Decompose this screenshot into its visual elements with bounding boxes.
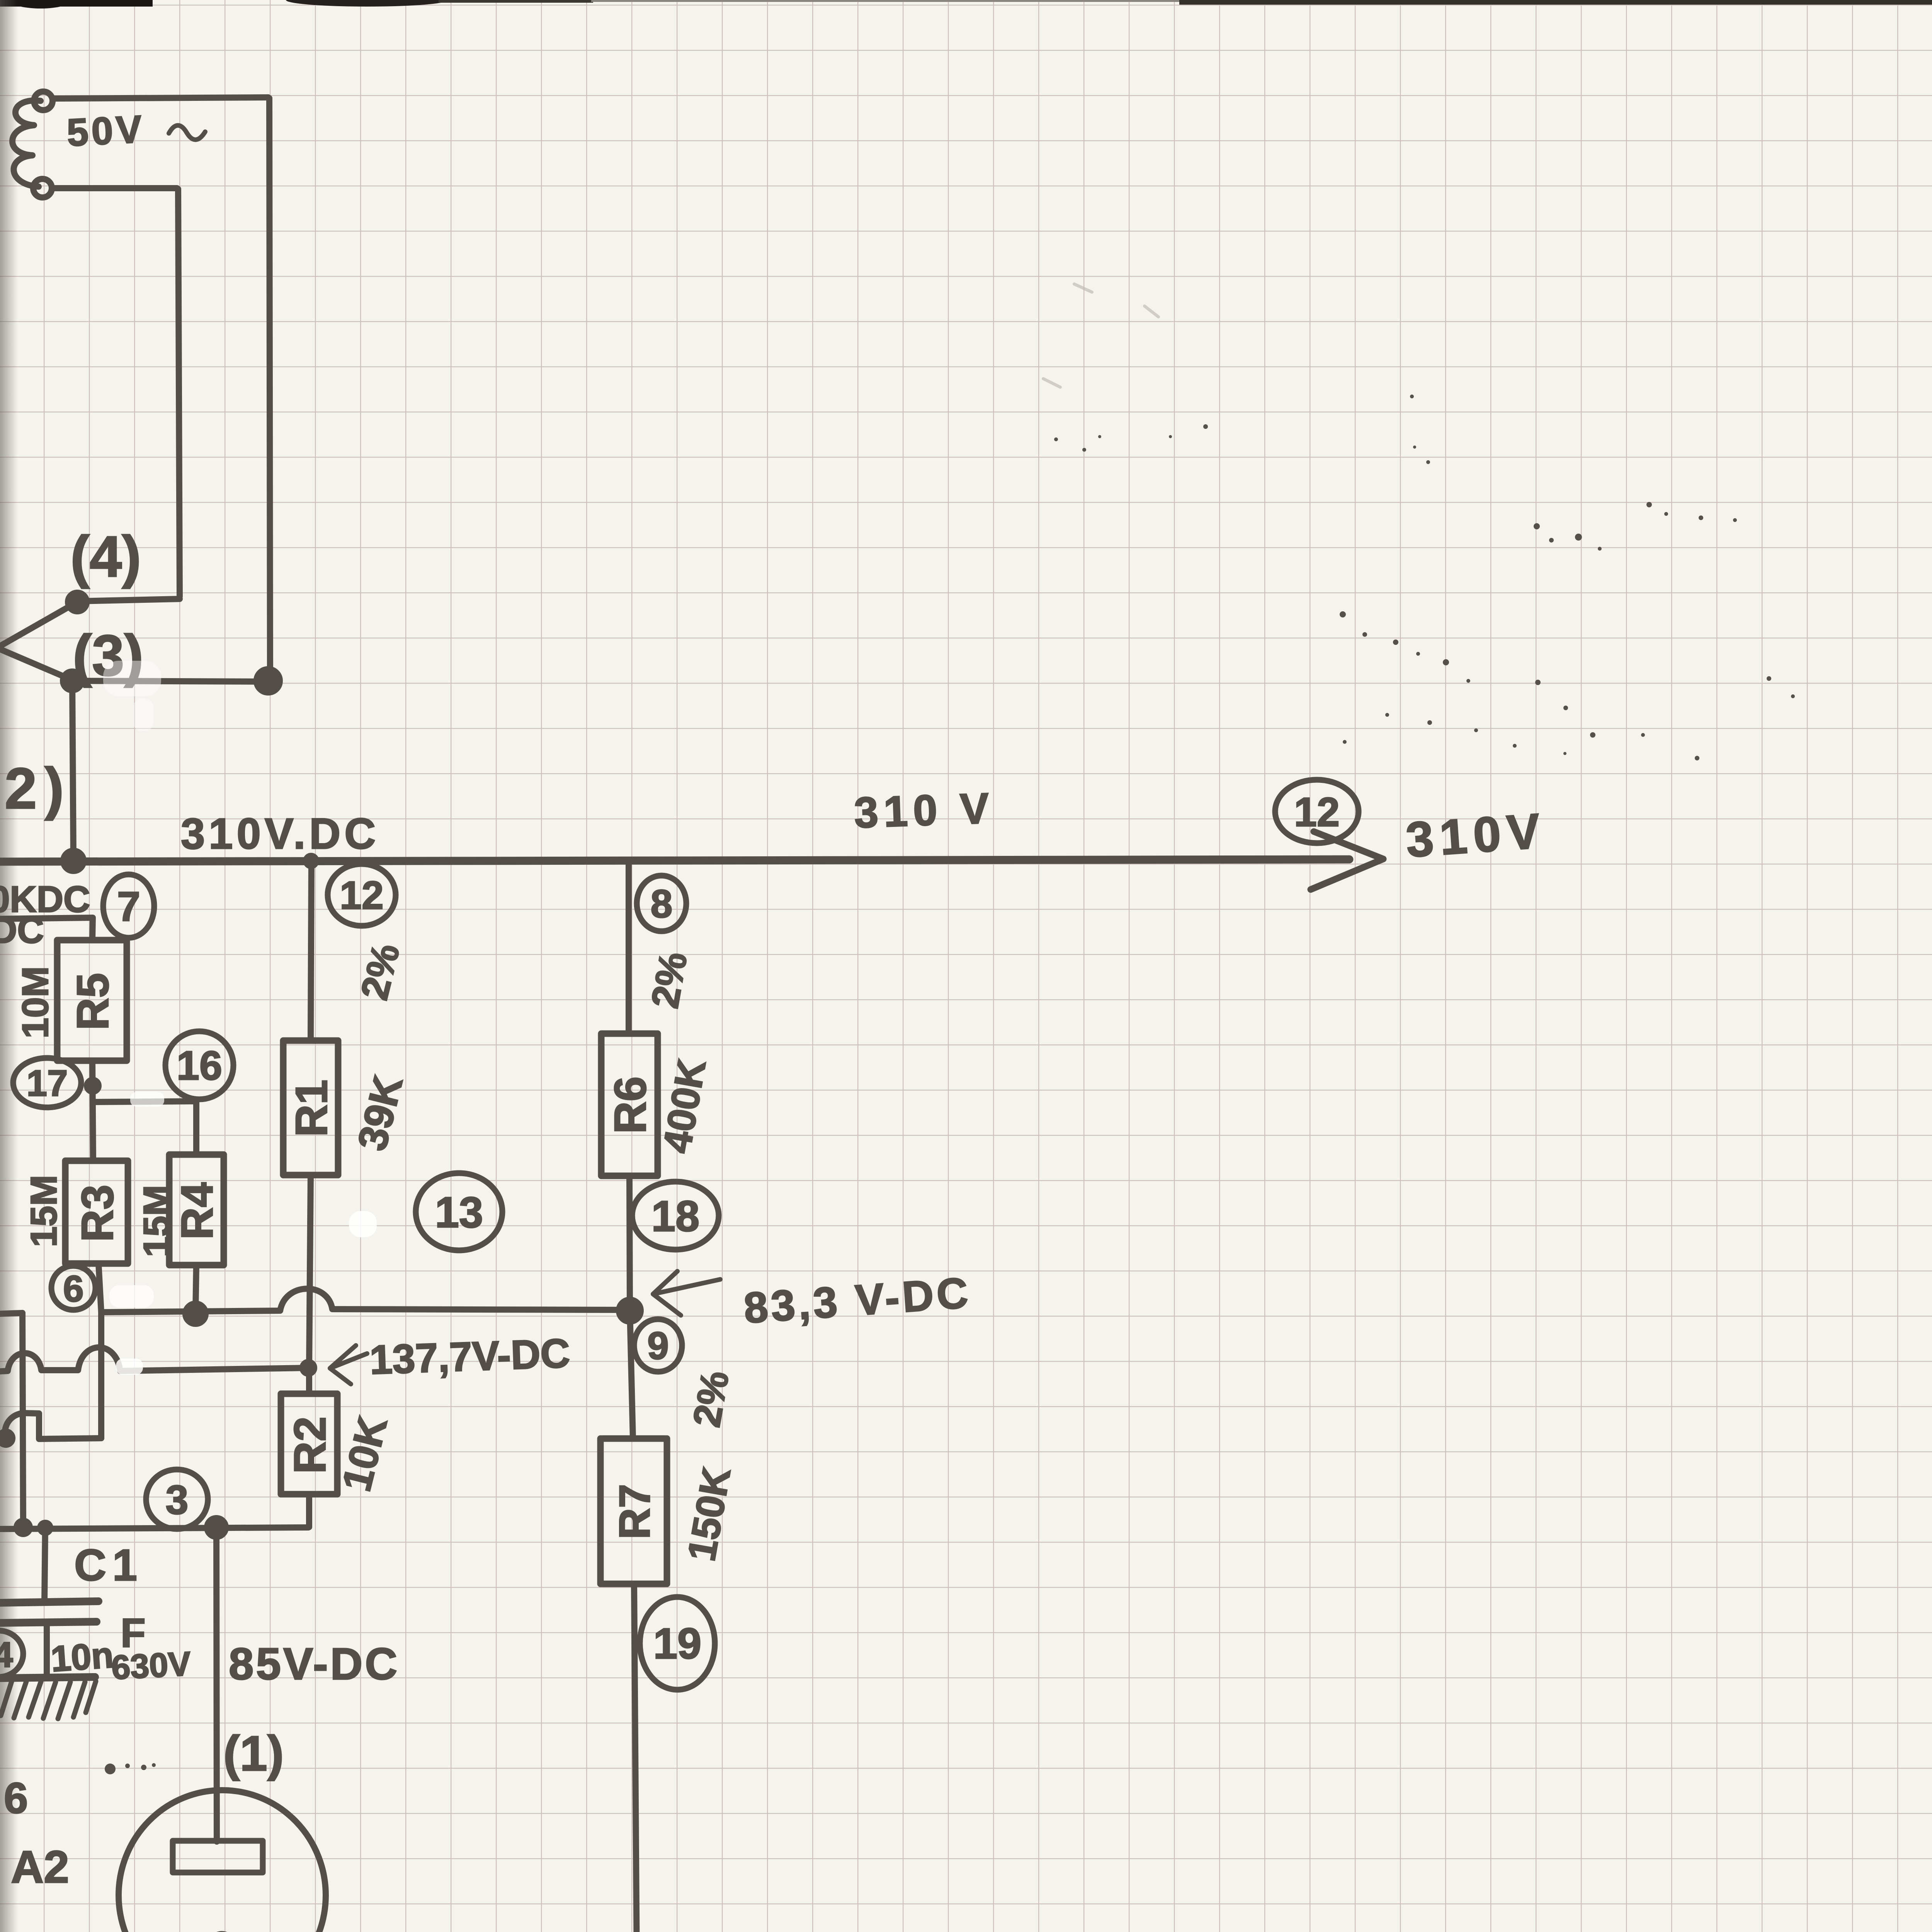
junction dot below R5	[87, 1080, 99, 1092]
svg-text:R2: R2	[285, 1417, 335, 1474]
white-out patch on second row	[116, 1359, 143, 1375]
wire tube anode lead	[216, 1527, 217, 1842]
AC squiggle after 50V	[169, 125, 205, 139]
svg-text:15M: 15M	[23, 1175, 65, 1247]
junction dot R4 / mid row	[185, 1304, 206, 1324]
white-out patch in circle 13	[349, 1211, 377, 1237]
transformer winding L1 (50V)	[12, 100, 41, 187]
ground bar under C1	[0, 1677, 95, 1678]
svg-text:15M: 15M	[136, 1185, 177, 1257]
svg-text:R6: R6	[605, 1077, 655, 1134]
wire R2 bottom lead	[306, 1494, 312, 1527]
svg-text:(2): (2)	[0, 756, 71, 821]
svg-text:DC: DC	[0, 910, 44, 951]
resistor R6 body	[601, 1034, 658, 1176]
wire bus stub top-left of mid row	[0, 1313, 22, 1314]
svg-text:310V.DC: 310V.DC	[181, 810, 379, 858]
wire from bottom terminal right	[53, 185, 177, 191]
svg-text:(4): (4)	[70, 524, 141, 589]
resistor R5 body	[57, 940, 127, 1061]
resistor R7 body	[600, 1439, 667, 1584]
scan band faint middle	[591, 0, 1180, 2]
node circle 9	[634, 1319, 682, 1372]
wire C1 top lead	[44, 1528, 45, 1602]
node circle 3	[146, 1469, 208, 1529]
white-out patch on R5-R4 wire	[130, 1092, 164, 1107]
junction dot left column / third row	[17, 1521, 30, 1534]
arrow pointing to 137,7V node	[330, 1345, 367, 1384]
junction dot right end of node3 wire	[257, 669, 280, 692]
third row wire (node 3 line)	[0, 1527, 308, 1529]
svg-text:6: 6	[4, 1774, 28, 1822]
svg-text:19: 19	[653, 1619, 702, 1668]
scan band top-middle lens	[286, 0, 448, 7]
node circle 8	[637, 876, 686, 931]
scan shadow left edge	[0, 0, 18, 1932]
node (4) wire	[77, 599, 180, 601]
svg-text:10M: 10M	[15, 966, 56, 1039]
wire R6 bottom lead	[629, 1176, 630, 1310]
junction dot C1 / third row	[40, 1523, 50, 1533]
wire junction to R4 top	[93, 1101, 196, 1155]
scan band top-right	[1179, 0, 1932, 5]
node circle 7	[103, 874, 154, 938]
wire R1 top lead to bus	[311, 860, 311, 1041]
wire R7 bottom lead to ground	[634, 1584, 638, 1932]
svg-text:R5: R5	[68, 973, 118, 1030]
junction dot tube lead / third row	[207, 1518, 226, 1537]
faint smudge strokes	[1074, 284, 1092, 292]
resistor R2 body	[281, 1394, 337, 1494]
node circle 13	[416, 1173, 502, 1250]
svg-text:9: 9	[647, 1324, 669, 1367]
svg-text:630V: 630V	[111, 1644, 192, 1687]
junction dot 83V node	[619, 1300, 641, 1321]
wire R5 feed from left edge	[0, 918, 93, 940]
wire R3 bottom lead	[99, 1264, 101, 1438]
tube anode plate	[173, 1841, 263, 1872]
svg-text:310 V: 310 V	[853, 784, 995, 837]
svg-text:310V: 310V	[1404, 803, 1548, 868]
bus arrowhead	[1311, 832, 1383, 889]
svg-text:10n: 10n	[49, 1634, 115, 1679]
junction dot at R2 top node	[303, 1362, 314, 1374]
svg-text:3: 3	[166, 1477, 189, 1523]
svg-text:16: 16	[177, 1043, 222, 1088]
junction dot bus / node3 wire	[63, 851, 83, 871]
node circle 12 left	[328, 864, 396, 926]
svg-text:A2: A2	[11, 1842, 69, 1893]
ground hatching under C1	[1, 1681, 96, 1719]
node (3) junction dot	[63, 672, 82, 690]
svg-text:8: 8	[651, 882, 673, 926]
resistor R3 body	[65, 1161, 128, 1264]
svg-text:R1: R1	[286, 1080, 337, 1137]
scan band top-left blob	[14, 0, 68, 9]
node circle 16	[165, 1031, 233, 1099]
capacitor C1 top plate	[0, 1601, 99, 1603]
svg-text:17: 17	[27, 1063, 68, 1104]
node (3) wire	[72, 681, 268, 682]
wire U-path from R3 lead to left	[5, 1413, 101, 1439]
scan band top-left	[0, 0, 153, 7]
wire R4 bottom lead	[196, 1265, 196, 1313]
arrow pointing to 83,3V node	[653, 1271, 720, 1315]
svg-text:6: 6	[63, 1268, 83, 1310]
wire end dot at left edge	[0, 1432, 12, 1445]
node circle 12 at bus arrow	[1275, 780, 1359, 843]
node circle 17	[13, 1058, 81, 1107]
svg-text:R3: R3	[72, 1185, 122, 1242]
wire down right column to node (3) row	[269, 98, 270, 680]
svg-text:(1): (1)	[223, 1726, 284, 1781]
node circle 18	[632, 1182, 719, 1250]
second row wire to R2 top with two hops	[0, 1347, 308, 1371]
node circle 4 at capacitor (partial)	[0, 1631, 23, 1677]
svg-text:7: 7	[117, 883, 140, 930]
svg-text:13: 13	[435, 1188, 483, 1236]
white-out streak below	[133, 699, 153, 731]
wire R1 bottom lead to R2 node	[309, 1175, 311, 1368]
svg-text:12: 12	[340, 873, 383, 917]
wire R2 top lead	[306, 1368, 312, 1394]
svg-text:C1: C1	[74, 1541, 143, 1590]
ink specks top right area	[1203, 424, 1208, 429]
svg-text:50V: 50V	[66, 107, 146, 155]
svg-text:85V-DC: 85V-DC	[229, 1639, 400, 1689]
wire angled lower from left edge to node (3)	[0, 649, 72, 680]
svg-text:18: 18	[651, 1192, 700, 1240]
capacitor C1 bottom plate	[0, 1622, 97, 1623]
svg-text:R7: R7	[611, 1484, 659, 1539]
terminal bottom of winding	[33, 179, 52, 197]
svg-text:R4: R4	[172, 1182, 222, 1240]
resistor R1 body	[283, 1041, 338, 1175]
mid row wire R3 to R6 node with hop over R1 wire	[101, 1289, 629, 1312]
wire down to node (4) row	[178, 189, 180, 597]
node (4) junction dot	[68, 593, 87, 611]
white-out patch under node 3 label	[103, 661, 161, 696]
wire R5 bottom to R3 top	[92, 1061, 93, 1161]
wire R6 top lead from bus	[626, 861, 632, 1034]
wire angled upper from left edge to node (4)	[0, 602, 77, 646]
wire node (3) down to 310V bus	[72, 681, 73, 860]
wire vertical left column down to lower row	[22, 1313, 23, 1527]
scan band thin segment	[439, 0, 593, 3]
node circle 6	[51, 1266, 95, 1310]
tube envelope V1	[119, 1790, 326, 1932]
wire R7 top lead	[630, 1311, 633, 1439]
junction dot R1 top at bus	[306, 856, 316, 866]
310V DC bus	[0, 859, 1349, 862]
terminal top of winding	[34, 92, 53, 110]
wire C1 bottom lead	[44, 1622, 50, 1677]
svg-text:4: 4	[0, 1635, 13, 1675]
white-out patch near R3 bottom	[109, 1285, 154, 1308]
resistor R4 body	[169, 1155, 224, 1265]
svg-text:12: 12	[1294, 789, 1340, 835]
wire from top terminal to the right	[53, 97, 268, 99]
node circle 19	[640, 1597, 715, 1690]
svg-text:137,7V-DC: 137,7V-DC	[369, 1330, 571, 1383]
